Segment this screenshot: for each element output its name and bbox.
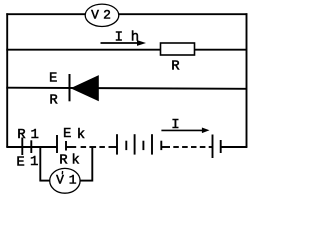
wire: dash 3 of left dashed run: [89, 146, 96, 148]
svg-text:V: V: [91, 8, 99, 23]
wire: V1 left drop vertical: [39, 147, 41, 182]
middle battery plate 4 (short): [142, 141, 144, 150]
wire: third rail (diode rail): [6, 88, 247, 89]
svg-text:k: k: [71, 153, 79, 169]
svg-text:1: 1: [30, 154, 38, 170]
wire: V1 right drop vertical: [91, 147, 93, 182]
svg-text:E: E: [16, 155, 24, 171]
wire: dash 4 of left dashed run: [99, 146, 105, 148]
wire: dash 5 of right dashed run: [209, 146, 213, 148]
svg-text:I: I: [171, 117, 179, 133]
current arrow I shaft (bottom): [161, 129, 203, 131]
svg-text:I: I: [115, 29, 123, 45]
svg-text:1: 1: [30, 127, 38, 143]
middle battery plate 5 (long): [151, 134, 153, 154]
wire: stub right of Ek short plate: [66, 146, 71, 148]
middle battery plate 3 (long): [134, 134, 136, 154]
prime tick above V of V1: [61, 171, 63, 174]
wire: right border of outer loop: [246, 13, 248, 147]
right battery short plate: [220, 140, 222, 153]
middle battery plate 6 (short): [160, 141, 162, 150]
battery cell Ek short plate: [65, 141, 67, 151]
current arrow I_h shaft: [101, 42, 139, 44]
svg-text:R: R: [59, 152, 68, 168]
wire: top rail: [6, 13, 247, 15]
current arrow I_h head: [137, 40, 146, 46]
middle battery plate 2 (short): [125, 141, 127, 150]
diode cathode bar: [69, 74, 71, 101]
wire: dash 3 of right dashed run: [191, 146, 197, 148]
diode triangle: [71, 75, 99, 101]
battery cell 1 short plate: [30, 140, 32, 153]
svg-text:R: R: [171, 59, 180, 75]
wire: second rail: [6, 49, 247, 51]
wire: stub after middle battery: [161, 146, 170, 148]
right battery long plate: [212, 135, 214, 159]
wire: bottom rail left segment: [6, 146, 57, 148]
wire: dash 2 of right dashed run: [182, 146, 188, 148]
wire: dash 5 of left dashed run: [109, 146, 118, 148]
svg-text:V: V: [56, 172, 64, 187]
svg-text:h: h: [131, 29, 139, 45]
battery cell Ek long plate: [56, 135, 58, 153]
wire: dash 4 of right dashed run: [200, 146, 206, 148]
svg-text:R: R: [49, 93, 58, 109]
wire: bottom rail right segment: [221, 146, 248, 148]
svg-text:E: E: [63, 126, 71, 142]
svg-text:1: 1: [69, 172, 77, 187]
resistor R body: [161, 43, 195, 55]
wire: dash 1 of left dashed run: [71, 146, 77, 148]
wire: dash 1 of right dashed run: [173, 146, 179, 148]
battery cell 1 long plate: [21, 138, 23, 156]
svg-text:R: R: [17, 127, 26, 143]
svg-text:k: k: [77, 127, 85, 143]
svg-text:E: E: [49, 71, 57, 87]
wire: dash 2 of left dashed run: [81, 146, 87, 148]
voltmeter V2: [85, 4, 119, 26]
wire: V1 right drop horizontal: [80, 180, 92, 182]
wire: left border of outer loop: [6, 13, 8, 147]
wire: V1 left drop horizontal: [40, 180, 50, 182]
svg-text:2: 2: [103, 8, 111, 23]
current arrow I head (bottom): [202, 128, 210, 134]
middle battery plate 1 (long): [116, 134, 118, 154]
voltmeter V1: [50, 168, 80, 193]
